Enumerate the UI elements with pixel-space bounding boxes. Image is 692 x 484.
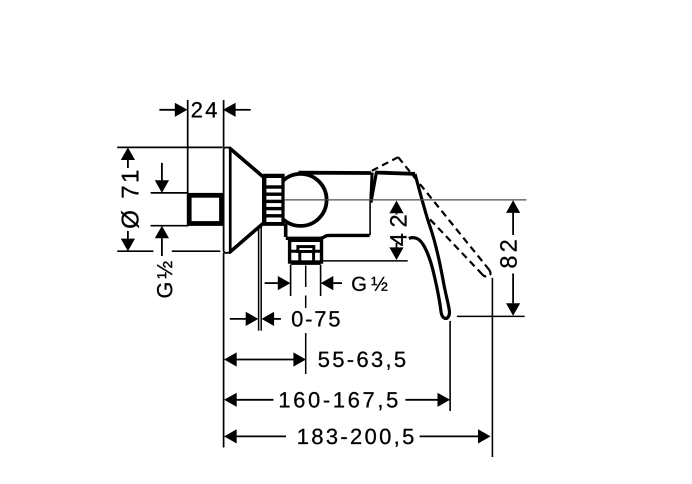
dimension diameter 71 [117,147,222,251]
dimension 160-167,5 [224,392,450,410]
outlet center dashed axis [305,266,307,375]
escutcheon flange [224,148,230,253]
dimension 42 [322,201,408,261]
center axis line [285,199,527,201]
dimension G1/2 outlet [265,276,388,291]
dimension 0-75 [230,311,340,327]
valve body circle [275,174,327,226]
183-200,5 extension line [491,278,493,457]
body of mixer valve (white fill block) [286,173,370,238]
outlet nut face lines [300,251,314,262]
outlet thread relief line [291,263,321,265]
handle lever (solid) [409,174,450,318]
dimension 55-63,5 [224,352,405,370]
body outline [286,173,372,239]
dimension 82 [457,200,525,316]
wall plane extension line [223,100,225,448]
outlet nut top flat [298,247,314,252]
0-75 double extension lines [259,226,262,331]
dimension 24 [159,102,250,117]
dimension 183-200,5 [224,429,491,447]
escutcheon cone [230,148,264,252]
160-167,5 extension line [449,321,451,411]
outlet flange [290,240,322,262]
outlet extension lines [291,265,321,296]
dimension G1/2 stub [151,163,189,298]
supply stub (G1/2 thread) [189,195,221,223]
outlet mid line [290,250,322,253]
stub-face extension line [187,100,189,193]
handle base trapezoid [371,172,427,215]
handle raised position (dashed) [372,157,491,276]
threaded ring (ribs) [263,174,284,226]
